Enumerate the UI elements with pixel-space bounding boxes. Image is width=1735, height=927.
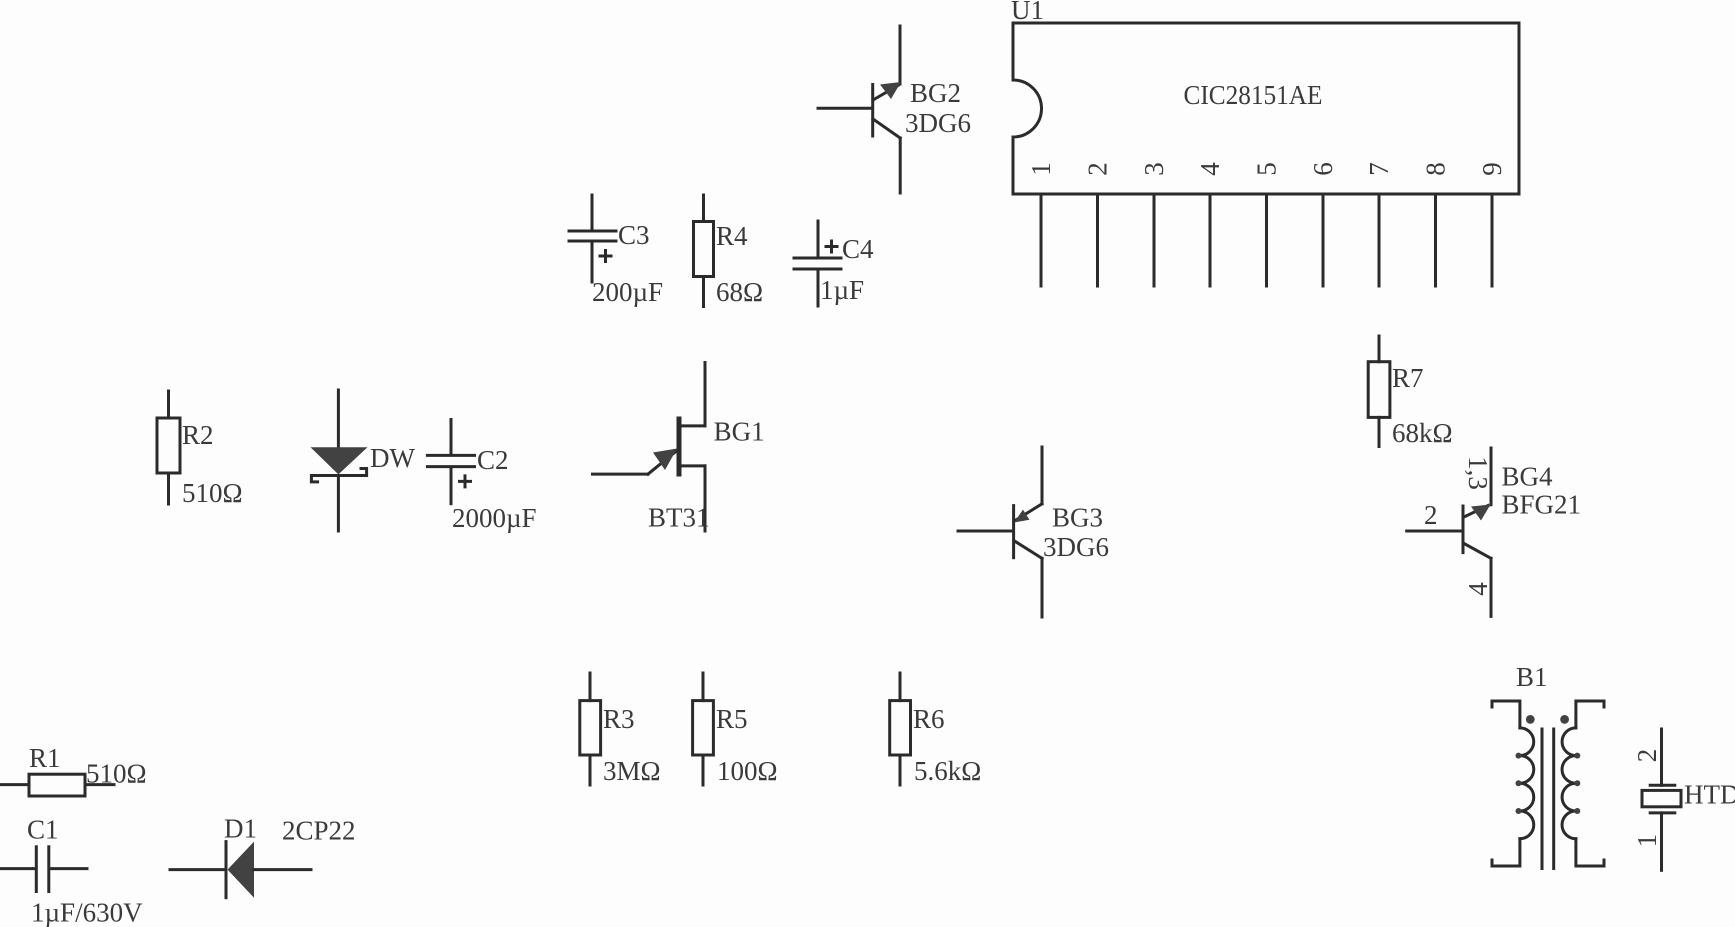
transistor BG4 [1407, 448, 1581, 616]
diode D1 triangle [228, 842, 255, 898]
resistor R6 bottom lead wire [899, 755, 902, 785]
transistor BG2 collector vertical wire [899, 26, 902, 84]
transformer B1 primary winding [1520, 728, 1534, 839]
svg-text:R5: R5 [716, 704, 748, 734]
svg-text:510Ω: 510Ω [86, 759, 147, 789]
transistor BG3 [958, 447, 1109, 617]
transistor BG2 base bar [871, 85, 874, 137]
transformer B1 core line right [1552, 729, 1555, 869]
resistor R6 [890, 673, 982, 786]
svg-text:7: 7 [1364, 162, 1394, 176]
svg-text:1: 1 [1026, 162, 1056, 176]
svg-text:4: 4 [1195, 162, 1225, 176]
transistor BG1 bottom lead vertical wire [704, 466, 707, 531]
capacitor C1 left lead wire [1, 867, 34, 870]
transistor BG2 emitter vertical wire [899, 138, 902, 193]
buzzer HTD [1632, 729, 1735, 870]
svg-text:1µF: 1µF [820, 275, 864, 305]
transistor BG4 collector diagonal wire [1464, 506, 1488, 518]
transistor BG4 base lead wire [1407, 530, 1461, 533]
IC U1 pin 2 wire [1096, 194, 1099, 286]
transistor BG3 collector vertical wire [1041, 447, 1044, 504]
svg-text:2: 2 [1632, 749, 1662, 763]
resistor R1 [2, 743, 147, 796]
transformer B1 secondary winding [1562, 728, 1576, 839]
transformer B1 [1492, 662, 1604, 869]
svg-text:1µF/630V: 1µF/630V [31, 898, 143, 927]
svg-text:BG2: BG2 [910, 78, 961, 108]
transistor BG1 bottom lead horizontal wire [681, 464, 705, 467]
svg-text:U1: U1 [1011, 0, 1044, 25]
transistor BG1 top lead vertical wire [704, 363, 707, 426]
diode D1 cathode bar [225, 842, 228, 898]
resistor R7 body [1368, 362, 1390, 418]
svg-text:BG1: BG1 [714, 417, 765, 447]
capacitor C1 right plate [47, 847, 50, 892]
svg-text:68Ω: 68Ω [716, 277, 763, 307]
svg-text:DW: DW [370, 443, 415, 473]
transistor BG4 base bar [1462, 506, 1465, 553]
svg-text:C4: C4 [842, 234, 874, 264]
capacitor C1 left plate [35, 847, 38, 892]
capacitor C2 bottom plate [427, 465, 474, 468]
resistor R3 [580, 673, 661, 786]
svg-text:3DG6: 3DG6 [1043, 532, 1109, 562]
IC U1 [1011, 0, 1519, 194]
svg-text:1,3: 1,3 [1463, 456, 1493, 490]
transistor BG3 collector diagonal wire [1016, 504, 1042, 520]
capacitor C4 [794, 221, 874, 306]
svg-text:2000µF: 2000µF [452, 503, 537, 533]
svg-text:C3: C3 [618, 220, 650, 250]
capacitor C4 bottom plate [794, 268, 841, 271]
capacitor C2 bottom lead wire [450, 469, 453, 504]
resistor R1 body [29, 774, 85, 796]
buzzer HTD top plate [1650, 784, 1675, 787]
transformer B1 core line left [1541, 729, 1544, 869]
svg-text:200µF: 200µF [592, 277, 663, 307]
transistor BG4 collector arrowhead [1471, 505, 1491, 521]
resistor R6 body [890, 701, 911, 755]
svg-text:CIC28151AE: CIC28151AE [1184, 80, 1323, 110]
resistor R5 bottom lead wire [702, 755, 705, 785]
resistor R4 bottom lead wire [702, 277, 705, 307]
resistor R1 left lead wire [2, 783, 30, 786]
resistor R6 top lead wire [899, 673, 902, 701]
IC U1 pin 4 wire [1209, 194, 1212, 286]
transistor BG3 base lead wire [958, 530, 1011, 533]
svg-text:6: 6 [1308, 162, 1338, 176]
capacitor C4 top lead wire [817, 221, 820, 256]
resistor R7 bottom lead wire [1378, 417, 1381, 446]
transistor BG1 emitter horizontal wire [593, 473, 649, 476]
svg-text:2: 2 [1083, 162, 1113, 176]
IC U1 pin 1 wire [1040, 194, 1043, 286]
resistor R2 body [157, 418, 180, 473]
zener diode DW triangle [311, 447, 368, 474]
transistor BG3 emitter diagonal wire [1015, 541, 1043, 558]
svg-text:2: 2 [1424, 500, 1438, 530]
resistor R5 [693, 673, 778, 786]
IC U1 pin 9 wire [1491, 194, 1494, 286]
capacitor C3 bottom lead wire [591, 243, 594, 282]
IC U1 pin 3 wire [1153, 194, 1156, 286]
svg-text:B1: B1 [1516, 662, 1548, 692]
transistor BG2 collector diagonal wire [873, 86, 898, 101]
svg-text:R6: R6 [913, 704, 945, 734]
capacitor C4 top plate [794, 257, 841, 260]
diode D1 [170, 814, 356, 898]
svg-text:BT31: BT31 [648, 503, 710, 533]
svg-text:100Ω: 100Ω [717, 756, 778, 786]
buzzer HTD body box [1642, 790, 1681, 806]
capacitor C4 polarity plus sign [826, 241, 837, 252]
capacitor C1 [1, 815, 143, 927]
transformer B1 secondary phase dot [1560, 715, 1569, 724]
resistor R2 bottom lead wire [167, 473, 170, 504]
svg-text:R1: R1 [29, 743, 61, 773]
transformer B1 secondary top lead wire [1576, 701, 1604, 728]
capacitor C2 top lead wire [450, 420, 453, 454]
buzzer HTD bottom plate [1650, 811, 1675, 814]
transistor BG4 emitter vertical wire [1490, 558, 1493, 616]
transistor BG2 collector arrowhead [880, 82, 901, 99]
buzzer HTD bottom lead wire [1660, 813, 1663, 870]
zener diode DW bottom wire [337, 476, 340, 532]
svg-text:HTD: HTD [1684, 780, 1735, 810]
resistor R7 [1368, 336, 1452, 448]
transistor BG1 emitter diagonal wire [648, 451, 677, 475]
resistor R5 top lead wire [702, 673, 705, 701]
transistor BG1 bar [677, 419, 682, 474]
capacitor C2 polarity plus sign [460, 476, 471, 487]
svg-text:510Ω: 510Ω [182, 478, 243, 508]
buzzer HTD top lead wire [1660, 729, 1663, 785]
svg-text:D1: D1 [224, 814, 257, 844]
svg-text:2CP22: 2CP22 [282, 816, 356, 846]
capacitor C3 [569, 195, 663, 307]
transistor BG3 emitter vertical wire [1041, 558, 1044, 617]
capacitor C1 right lead wire [51, 867, 87, 870]
svg-text:C2: C2 [477, 445, 509, 475]
svg-text:R3: R3 [603, 704, 635, 734]
svg-text:BFG21: BFG21 [1502, 490, 1582, 520]
svg-text:68kΩ: 68kΩ [1392, 418, 1453, 448]
resistor R3 bottom lead wire [589, 755, 592, 785]
svg-text:BG4: BG4 [1502, 461, 1554, 491]
diode D1 right lead wire [254, 868, 311, 871]
svg-text:R7: R7 [1392, 363, 1424, 393]
resistor R4 body [694, 222, 714, 277]
transformer B1 primary winding cusp nubs [1516, 753, 1522, 759]
svg-text:1: 1 [1632, 834, 1662, 848]
svg-text:BG3: BG3 [1052, 502, 1103, 532]
diode D1 left lead wire [170, 868, 226, 871]
IC U1 body outline with notch [1013, 23, 1519, 194]
capacitor C3 top plate [569, 230, 616, 233]
resistor R5 body [693, 701, 714, 755]
resistor R7 top lead wire [1378, 336, 1381, 362]
resistor R3 top lead wire [589, 673, 592, 701]
capacitor C4 bottom lead wire [817, 271, 820, 306]
transformer B1 primary bottom lead wire [1492, 839, 1520, 866]
resistor R1 right lead wire [85, 783, 114, 786]
resistor R2 top lead wire [167, 391, 170, 418]
transistor BG1 top lead horizontal wire [681, 424, 705, 427]
svg-text:5.6kΩ: 5.6kΩ [914, 756, 981, 786]
svg-text:C1: C1 [27, 815, 59, 845]
transistor BG3 collector arrowhead [1014, 510, 1030, 523]
transistor BG2 emitter diagonal wire [873, 119, 900, 138]
svg-text:3DG6: 3DG6 [905, 108, 971, 138]
transistor BG2 base lead wire [818, 107, 870, 110]
capacitor C3 polarity plus sign [600, 251, 611, 262]
resistor R4 top lead wire [702, 195, 705, 222]
capacitor C2 [427, 420, 536, 534]
svg-text:4: 4 [1463, 582, 1493, 596]
svg-text:R2: R2 [182, 420, 214, 450]
IC U1 pin 8 wire [1434, 194, 1437, 286]
transistor BG1 [593, 363, 765, 533]
transformer B1 primary phase dot [1526, 715, 1535, 724]
transformer B1 primary top lead wire [1492, 701, 1520, 728]
resistor R3 body [580, 701, 601, 755]
capacitor C3 top lead wire [591, 195, 594, 229]
IC U1 pin 5 wire [1265, 194, 1268, 286]
IC U1 pin 6 wire [1322, 194, 1325, 286]
transistor BG4 emitter diagonal wire [1464, 544, 1491, 559]
transistor BG1 emitter arrowhead [653, 449, 677, 471]
svg-text:R4: R4 [716, 221, 748, 251]
svg-text:9: 9 [1477, 162, 1507, 176]
svg-text:8: 8 [1421, 162, 1451, 176]
zener diode DW top wire [337, 390, 340, 447]
resistor R4 [694, 195, 764, 307]
svg-text:3MΩ: 3MΩ [603, 756, 661, 786]
transformer B1 secondary bottom lead wire [1576, 839, 1604, 866]
IC U1 pin 7 wire [1378, 194, 1381, 286]
capacitor C3 bottom plate [569, 240, 616, 243]
zener diode DW [311, 390, 416, 531]
transistor BG3 base bar [1012, 506, 1015, 558]
transistor BG2 [818, 26, 971, 193]
resistor R2 [157, 391, 243, 508]
transformer B1 secondary winding cusp nubs [1574, 753, 1580, 759]
zener diode DW cathode bar with bent ends [311, 469, 366, 482]
svg-text:5: 5 [1252, 162, 1282, 176]
svg-text:3: 3 [1139, 162, 1169, 176]
transistor BG4 collector vertical wire [1490, 448, 1493, 505]
capacitor C2 top plate [427, 454, 474, 457]
